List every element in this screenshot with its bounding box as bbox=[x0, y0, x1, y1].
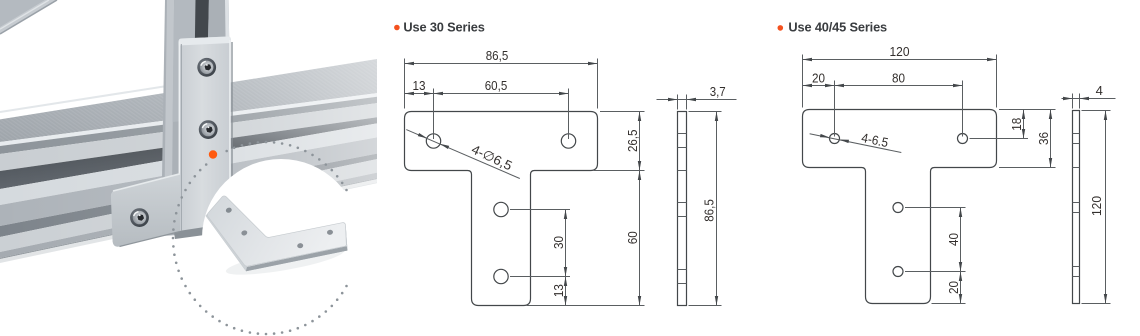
side dim 4 bbox=[1062, 94, 1116, 109]
L-plate product: top face bbox=[207, 196, 346, 266]
leader 4-d6,5 bbox=[406, 130, 520, 179]
screw upper on vertical leg bbox=[197, 58, 216, 77]
dim texts middle bbox=[413, 48, 726, 297]
dim 86,5 line bbox=[405, 59, 598, 109]
hole top-left bbox=[830, 134, 840, 144]
dim 30 / 13 line bbox=[510, 210, 570, 306]
side dim 86,5 bbox=[689, 112, 722, 306]
dim 120 line bbox=[803, 55, 997, 108]
joint shadow under plate bbox=[172, 210, 234, 239]
hole leg upper bbox=[494, 202, 508, 216]
svg-text:Use 30 Series: Use 30 Series bbox=[403, 20, 484, 35]
arrows middle bbox=[405, 62, 719, 306]
svg-text:26,5: 26,5 bbox=[625, 130, 640, 153]
svg-text:60: 60 bbox=[625, 231, 640, 244]
beam (horizontal extrusion) bands bbox=[0, 59, 380, 264]
svg-text:4-6.5: 4-6.5 bbox=[860, 130, 889, 150]
L-plate product: right end cap bbox=[344, 223, 347, 251]
left member triangle (top-left extrusion corner) bbox=[0, 0, 57, 34]
title bullet bbox=[778, 25, 784, 31]
svg-text:13: 13 bbox=[413, 78, 426, 93]
dim 36 line bbox=[999, 110, 1056, 168]
svg-text:13: 13 bbox=[551, 284, 566, 297]
svg-text:20: 20 bbox=[946, 281, 961, 294]
hole top-left bbox=[426, 134, 440, 148]
svg-text:86,5: 86,5 bbox=[702, 199, 717, 222]
dim 18 line bbox=[970, 110, 1056, 139]
side view plate bbox=[1073, 111, 1080, 304]
svg-text:86,5: 86,5 bbox=[486, 48, 509, 63]
side dim 3,7 bbox=[657, 95, 737, 110]
L-plate product: shadow bbox=[224, 242, 345, 281]
svg-text:4-∅6,5: 4-∅6,5 bbox=[469, 142, 514, 174]
side view plate bbox=[678, 112, 687, 306]
svg-text:Use 40/45 Series: Use 40/45 Series bbox=[788, 20, 887, 35]
svg-text:60,5: 60,5 bbox=[485, 78, 508, 93]
dim 26,5 / 60 line bbox=[527, 112, 645, 306]
svg-text:120: 120 bbox=[890, 44, 910, 59]
beam lighting overlay bbox=[0, 58, 380, 263]
svg-text:120: 120 bbox=[1089, 196, 1104, 216]
dim 40 / 20 line bbox=[905, 208, 966, 304]
hole leg upper bbox=[893, 203, 903, 213]
magnifier white disk bbox=[202, 159, 360, 317]
screw lower on vertical leg bbox=[199, 120, 218, 139]
hole leg lower bbox=[494, 269, 508, 283]
leader 4-6.5 bbox=[810, 134, 902, 153]
screw on horizontal leg bbox=[130, 208, 149, 227]
T-plate outline bbox=[803, 110, 997, 304]
hole top-right bbox=[958, 134, 968, 144]
side view hole ticks bbox=[1073, 134, 1080, 277]
hole leg lower bbox=[893, 267, 903, 277]
L-plate product: bottom silhouette (thickness) bbox=[206, 214, 348, 271]
T-plate outline bbox=[405, 112, 598, 306]
side dim 120 bbox=[1082, 111, 1111, 304]
svg-text:80: 80 bbox=[892, 70, 905, 85]
orange marker dot bbox=[209, 150, 217, 158]
hole top-right bbox=[561, 134, 575, 148]
svg-text:36: 36 bbox=[1036, 132, 1051, 145]
dim 20 / 80 line bbox=[803, 81, 963, 137]
side view hole ticks bbox=[678, 134, 687, 284]
panel bottom edge bbox=[0, 86, 167, 112]
bracket plate horizontal leg bbox=[111, 174, 180, 247]
dim 13 / 60,5 line bbox=[405, 89, 569, 140]
svg-text:18: 18 bbox=[1009, 118, 1024, 131]
svg-text:4: 4 bbox=[1096, 83, 1103, 98]
dotted callout ring bbox=[172, 141, 348, 336]
L-plate product: bottom edge face bbox=[246, 246, 348, 271]
vertical post bbox=[161, 0, 232, 236]
L-plate product: holes bbox=[225, 207, 232, 214]
svg-text:30: 30 bbox=[551, 236, 566, 249]
dim texts right bbox=[812, 44, 1104, 294]
svg-text:40: 40 bbox=[946, 233, 961, 246]
arrows right bbox=[803, 58, 1108, 304]
bracket plate vertical leg bbox=[179, 36, 232, 231]
svg-text:3,7: 3,7 bbox=[710, 84, 726, 99]
title bullet bbox=[394, 25, 400, 31]
svg-text:20: 20 bbox=[812, 70, 825, 85]
L-plate product: left edge face bbox=[206, 214, 247, 271]
